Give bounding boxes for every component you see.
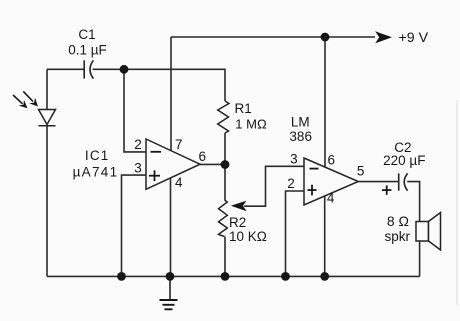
capacitor C1 [84, 60, 93, 78]
wire left rail lower [46, 126, 48, 277]
wire LM386 pin2 to ground [286, 191, 305, 276]
op-amp IC1 triangle [146, 139, 200, 189]
wire pin5 to C2 [358, 181, 398, 183]
wire C1 input line [47, 68, 84, 70]
resistor R1 [218, 101, 229, 133]
potentiometer R2 wiper arrow [231, 201, 247, 211]
node ground bus pin3 [117, 272, 126, 281]
node ground bus R2 [221, 272, 230, 281]
svg-text:2: 2 [287, 176, 295, 191]
svg-text:1 MΩ: 1 MΩ [235, 117, 267, 132]
op-amp IC1 minus input mark [151, 151, 162, 153]
svg-text:6: 6 [199, 149, 207, 164]
node C1 output junction [120, 65, 129, 74]
svg-text:3: 3 [134, 160, 142, 175]
op-amp U2 LM386 triangle [304, 158, 358, 205]
node ground bus LM386 pin2 [281, 272, 290, 281]
svg-text:+9 V: +9 V [399, 30, 429, 46]
wire bottom ground bus [47, 275, 420, 277]
op-amp IC1 plus input mark [149, 170, 160, 181]
capacitor C2 [399, 173, 408, 190]
wire LM386 pin6 riser [324, 37, 326, 167]
svg-text:7: 7 [175, 137, 183, 152]
svg-text:3: 3 [290, 151, 298, 166]
wire op-amp output node [200, 163, 225, 165]
op-amp U2 minus input mark [310, 168, 319, 170]
svg-text:5: 5 [357, 163, 365, 178]
capacitor C2 polarity plus [382, 185, 391, 194]
potentiometer R2 [219, 200, 228, 237]
wire C1 node to pin2 [124, 69, 146, 152]
node op-amp output junction [221, 160, 230, 169]
wire R1 bottom lead [224, 133, 226, 165]
scan artifact right edge [456, 100, 458, 305]
wire LM386 pin4 down [324, 196, 326, 276]
wire C1 to R1 corner [93, 69, 225, 101]
power +9V arrow [375, 30, 428, 46]
svg-text:spkr: spkr [384, 229, 410, 244]
photodiode light arrow 1 [13, 95, 28, 108]
wire op-amp pin4 down [170, 178, 172, 277]
wire pin3 to ground [122, 175, 147, 276]
node ground bus pin4 [166, 272, 175, 281]
svg-text:386: 386 [289, 129, 312, 144]
photodiode light arrow 2 [23, 91, 38, 106]
node +9V junction [321, 33, 330, 42]
photodiode D1 [39, 110, 56, 126]
svg-text:6: 6 [327, 153, 335, 168]
wire pin7 riser [170, 37, 172, 151]
svg-text:R1: R1 [235, 101, 252, 116]
svg-text:4: 4 [175, 175, 183, 190]
wire C2 to speaker [407, 182, 419, 277]
svg-text:µA741: µA741 [73, 165, 119, 180]
svg-text:10 KΩ: 10 KΩ [229, 229, 267, 244]
svg-text:LM: LM [291, 114, 310, 129]
svg-text:220 µF: 220 µF [383, 153, 425, 168]
node ground bus LM386 pin4 [320, 272, 329, 281]
speaker SPKR [416, 213, 441, 251]
svg-text:R2: R2 [229, 215, 246, 230]
svg-text:8 Ω: 8 Ω [387, 213, 409, 229]
svg-text:IC1: IC1 [85, 148, 110, 163]
wire wiper to LM386 pin3 [244, 166, 304, 206]
wire R2 top lead [224, 165, 226, 201]
wire R2 bottom lead [224, 237, 226, 277]
op-amp U2 plus input mark [308, 185, 317, 196]
svg-text:4: 4 [327, 191, 335, 206]
wire left rail upper [46, 69, 48, 109]
ground [160, 276, 178, 309]
wire +9V rail top [171, 36, 375, 38]
svg-text:0.1 µF: 0.1 µF [68, 43, 107, 58]
svg-text:2: 2 [134, 137, 142, 152]
svg-text:C1: C1 [78, 27, 95, 42]
